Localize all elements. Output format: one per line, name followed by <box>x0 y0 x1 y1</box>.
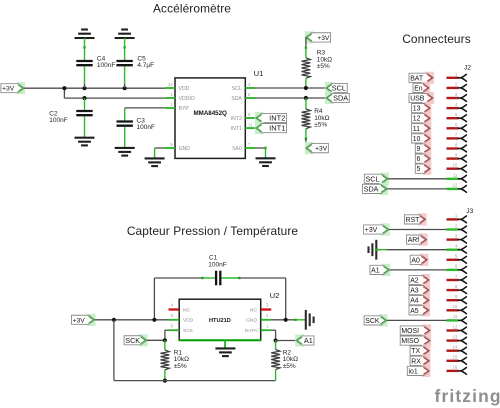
svg-text:12: 12 <box>453 324 458 329</box>
wire +3V rail to U1 VDD <box>24 87 165 89</box>
ground right of U2 (rotated) <box>306 310 314 330</box>
net flag 6 (J2 pin 9) <box>423 153 432 165</box>
lead R4 top <box>305 98 307 109</box>
svg-text:Connecteurs: Connecteurs <box>402 32 471 46</box>
pin J2-12 SDA <box>447 188 459 190</box>
svg-text:+3V: +3V <box>315 146 328 153</box>
junction C4 on VDD rail <box>82 86 86 90</box>
net flag A5 (J3 pin 10) <box>421 304 430 316</box>
svg-text:U2: U2 <box>270 291 279 300</box>
ground U1 SA0 <box>256 158 276 166</box>
wire SDA to J2-12 <box>387 188 446 190</box>
pin J3-4 GND <box>447 248 459 250</box>
svg-text:5: 5 <box>455 254 458 259</box>
svg-text:10: 10 <box>453 304 458 309</box>
svg-text:MISO: MISO <box>401 338 419 345</box>
svg-text:A3: A3 <box>410 288 419 295</box>
svg-text:SDA: SDA <box>364 184 379 193</box>
svg-text:100nF: 100nF <box>208 261 226 268</box>
lead C5 to VDD rail <box>124 66 126 84</box>
svg-text:SDA: SDA <box>231 96 242 102</box>
svg-text:6: 6 <box>455 264 458 269</box>
lead R2 bottom <box>275 370 277 381</box>
net flag USB (J2 pin 3) <box>425 92 434 104</box>
ground U1 GND <box>145 158 165 166</box>
pin J3-10 A5 <box>447 309 459 311</box>
wire +3V to J3-2 <box>389 229 447 231</box>
pin J3-11 SCK <box>447 319 459 321</box>
junction C5 on VDD rail <box>123 86 127 90</box>
wire SCL <box>256 87 326 89</box>
pin J2-5 12 <box>447 117 459 119</box>
svg-text:±5%: ±5% <box>314 122 327 129</box>
svg-text:6: 6 <box>171 323 174 328</box>
pin J3-15 RX <box>447 360 459 362</box>
svg-text:13: 13 <box>413 106 421 113</box>
wire C3 to U1 BYP <box>124 108 126 121</box>
resistor R3 <box>302 58 311 79</box>
pin U1 INT1 stub <box>245 127 255 129</box>
wire SCK flag to junction <box>147 339 165 341</box>
op-amp U1 MMA8452Q body <box>175 78 245 158</box>
svg-text:BYP: BYP <box>179 106 190 112</box>
pin J3-2 +3V <box>447 228 459 230</box>
svg-text:7: 7 <box>455 132 458 137</box>
lead C1 left <box>202 277 215 279</box>
svg-text:GND: GND <box>246 318 257 324</box>
net flag RX (J3 pin 15) <box>422 355 431 367</box>
svg-text:ARf: ARf <box>408 237 420 244</box>
svg-text:RX: RX <box>411 358 421 365</box>
svg-text:15: 15 <box>453 355 458 360</box>
net flag 11 (J2 pin 6) <box>423 122 432 134</box>
svg-text:INT1: INT1 <box>269 124 285 133</box>
svg-text:5: 5 <box>170 142 173 147</box>
lead ground to C4 <box>84 38 86 61</box>
pin U2 NC right red stub <box>261 308 272 310</box>
svg-text:J2: J2 <box>464 64 471 71</box>
svg-text:J3: J3 <box>466 208 473 215</box>
svg-text:14: 14 <box>453 345 458 350</box>
resistor R4 <box>302 109 311 129</box>
svg-text:2: 2 <box>266 313 269 318</box>
svg-text:1: 1 <box>170 92 173 97</box>
junction C2 on VDDIO rail <box>82 96 86 100</box>
svg-text:A1: A1 <box>304 336 313 345</box>
net flag SCK <box>139 334 148 346</box>
net flag INT2 <box>255 112 264 124</box>
junction R3 SCL <box>304 86 308 90</box>
svg-text:4.7µF: 4.7µF <box>137 62 154 69</box>
svg-text:U1: U1 <box>254 69 263 78</box>
wire SCK to J3-11 <box>387 319 447 321</box>
wire U1 GND to ground <box>155 147 165 149</box>
svg-text:Capteur Pression / Température: Capteur Pression / Température <box>127 224 299 238</box>
svg-text:INT2: INT2 <box>231 116 242 122</box>
capacitor C3 <box>117 122 133 126</box>
lead R1 top <box>164 340 166 350</box>
wire ground to J3-4 <box>376 249 387 251</box>
svg-text:2: 2 <box>170 102 173 107</box>
svg-text:MMA8452Q: MMA8452Q <box>194 110 228 117</box>
wire +3V rail to U2 VDD <box>95 319 169 321</box>
net flag A0 (J3 pin 5) <box>420 254 429 266</box>
svg-text:+3V: +3V <box>317 35 330 42</box>
net flag SCL <box>325 82 334 94</box>
svg-text:8: 8 <box>455 284 458 289</box>
svg-text:C1: C1 <box>209 254 218 261</box>
pin U2 NC left red stub <box>169 308 180 310</box>
svg-text:4: 4 <box>171 303 174 308</box>
svg-text:12: 12 <box>453 183 458 188</box>
svg-text:±5%: ±5% <box>283 363 296 370</box>
pin U1 VDDIO stub <box>165 97 175 99</box>
wire A1 to J3-6 <box>390 269 447 271</box>
svg-text:11: 11 <box>453 314 458 319</box>
ground symbol (J3 pin 4) <box>369 240 377 260</box>
net flag SDA <box>325 92 334 104</box>
lead R3 top <box>305 48 307 58</box>
svg-text:TX: TX <box>411 348 420 355</box>
svg-text:10: 10 <box>453 163 458 168</box>
svg-text:GND: GND <box>179 146 191 152</box>
net flag MISO (J3 pin 13) <box>422 335 431 347</box>
junction SCK / R1 <box>163 338 167 342</box>
lead VDDIO rail to C2 <box>84 98 86 110</box>
svg-text:Accéléromètre: Accéléromètre <box>153 1 231 15</box>
junction C1 right on GND net <box>284 318 288 322</box>
lead C3 to ground <box>124 127 126 148</box>
ground below U2 <box>215 348 235 356</box>
ground below C3 <box>115 148 135 156</box>
net flag A1 (J3 pin 6) <box>382 264 391 276</box>
wire U2 GND right <box>271 319 296 321</box>
svg-text:+3V: +3V <box>365 227 378 234</box>
svg-text:6: 6 <box>248 92 251 97</box>
pin J2-8 9 <box>447 147 459 149</box>
pin J2-9 6 <box>447 157 459 159</box>
svg-text:2: 2 <box>455 82 458 87</box>
pin J2-3 USB <box>447 97 459 99</box>
net flag 9 (J2 pin 8) <box>423 142 432 154</box>
capacitor C2 <box>76 111 92 115</box>
svg-text:VDD: VDD <box>183 318 194 324</box>
lead ground to C5 <box>124 38 126 61</box>
svg-text:7: 7 <box>455 274 458 279</box>
svg-text:SCL: SCL <box>232 86 242 92</box>
svg-text:6: 6 <box>455 122 458 127</box>
lead C2 to ground <box>84 116 86 137</box>
pin U2 VDD stub <box>169 319 179 321</box>
svg-text:A1: A1 <box>371 267 380 274</box>
net flag A2 (J3 pin 7) <box>421 274 430 286</box>
svg-text:8: 8 <box>455 142 458 147</box>
net flag SDA (J2 pin 12) <box>379 183 388 195</box>
svg-text:10: 10 <box>413 136 421 143</box>
junction +3V rail / bottom rail <box>112 318 116 322</box>
net flag ARf (J3 pin 3) <box>419 234 428 246</box>
svg-text:11: 11 <box>413 126 420 133</box>
svg-text:9: 9 <box>455 152 458 157</box>
lead R1 bottom <box>164 370 166 381</box>
net flag SCK (J3 pin 11) <box>379 314 388 326</box>
net flag A3 (J3 pin 8) <box>421 284 430 296</box>
wire junction up to U2 SCK <box>164 330 166 340</box>
svg-text:io1: io1 <box>409 368 418 375</box>
svg-text:1: 1 <box>266 323 269 328</box>
svg-text:2: 2 <box>455 223 458 228</box>
pin J3-1 RST <box>447 218 459 220</box>
svg-text:SCK: SCK <box>125 336 140 345</box>
svg-text:7: 7 <box>248 142 251 147</box>
ground above C4 <box>75 30 95 39</box>
net flag En (J2 pin 2) <box>421 82 430 94</box>
pin U2 GND stub <box>261 319 271 321</box>
svg-text:5: 5 <box>171 313 174 318</box>
capacitor C1 <box>216 271 220 286</box>
svg-text:A5: A5 <box>410 308 419 315</box>
svg-text:VDD: VDD <box>179 86 190 92</box>
svg-text:A4: A4 <box>410 298 419 305</box>
net flag 12 (J2 pin 5) <box>423 112 432 124</box>
pin J3-8 A3 <box>447 289 459 291</box>
svg-text:A0: A0 <box>411 257 420 264</box>
svg-text:5: 5 <box>417 166 421 173</box>
junction R1 bottom rail <box>163 379 167 383</box>
pin J3-16 io1 <box>447 370 459 372</box>
pin U1 GND stub <box>164 147 175 149</box>
pin U2 DATA stub <box>261 329 271 331</box>
svg-text:NC: NC <box>183 307 191 313</box>
svg-text:SCK: SCK <box>183 328 194 334</box>
pin U1 SCL stub <box>245 87 255 89</box>
pin U1 BYP stub <box>165 107 175 109</box>
junction R4 SDA <box>304 96 308 100</box>
net flag A4 (J3 pin 9) <box>421 294 430 306</box>
svg-text:R3: R3 <box>317 49 326 56</box>
svg-text:9: 9 <box>455 294 458 299</box>
pin J3-13 MISO <box>447 339 459 341</box>
pin J3-6 A1 <box>447 269 459 271</box>
capacitor C5 <box>116 61 132 65</box>
pin J2-2 En <box>447 87 459 89</box>
wire SCL to J2-11 <box>388 178 446 180</box>
svg-text:BAT: BAT <box>410 75 424 82</box>
pin J2-1 BAT <box>447 77 459 79</box>
pin J2-4 13 <box>447 107 459 109</box>
net flag RST (J3 pin 1) <box>418 213 427 225</box>
net flag INT1 <box>255 122 264 134</box>
svg-text:HTU21D: HTU21D <box>209 318 231 324</box>
svg-text:±5%: ±5% <box>317 63 330 70</box>
supply flag +3V (sensor) <box>87 314 96 326</box>
svg-text:SDA: SDA <box>333 93 348 102</box>
svg-text:INT2: INT2 <box>269 113 285 122</box>
net flag A1 <box>295 334 304 346</box>
svg-text:9: 9 <box>248 112 251 117</box>
svg-text:1: 1 <box>455 72 458 77</box>
net flag 10 (J2 pin 7) <box>423 132 432 144</box>
net flag 13 (J2 pin 4) <box>423 102 432 114</box>
pin U1 VDD stub <box>165 87 175 89</box>
svg-text:INT1: INT1 <box>231 126 242 132</box>
svg-text:±5%: ±5% <box>174 363 187 370</box>
pin U1 SDA stub <box>245 97 255 99</box>
svg-text:11: 11 <box>248 122 253 127</box>
wire +3V to R3 <box>305 37 307 47</box>
pin J3-5 A0 <box>447 259 459 261</box>
svg-text:13: 13 <box>453 334 458 339</box>
wire C1 left down to +3V rail <box>153 278 155 320</box>
pin J2-7 10 <box>447 137 459 139</box>
net flag TX (J3 pin 14) <box>422 345 431 357</box>
pin J2-10 5 <box>447 167 459 169</box>
wire U2 DATA to junction <box>271 329 276 331</box>
svg-text:SA0: SA0 <box>232 146 242 152</box>
pin J3-9 A4 <box>447 299 459 301</box>
svg-text:14: 14 <box>168 82 173 87</box>
svg-text:RST: RST <box>406 217 421 224</box>
op-amp U2 HTU21D body <box>179 299 261 340</box>
svg-text:6: 6 <box>417 156 421 163</box>
svg-text:4: 4 <box>248 82 251 87</box>
wire bottom +3V rail <box>113 320 115 381</box>
net flag +3V (J3 pin 2) <box>381 223 390 235</box>
junction DATA / R2 / A1 <box>274 338 278 342</box>
net flag SCL (J2 pin 11) <box>380 173 389 185</box>
svg-text:En: En <box>414 85 423 92</box>
svg-text:16: 16 <box>453 365 458 370</box>
lead R4 bottom <box>305 129 307 139</box>
junction +3V/VDDIO split <box>62 86 66 90</box>
wire VDDIO rail <box>63 88 65 98</box>
svg-text:SCK: SCK <box>365 318 380 325</box>
lead R2 top <box>275 341 277 350</box>
svg-text:SCL: SCL <box>366 174 380 183</box>
lead C1 right <box>221 277 239 279</box>
wire junction to A1 flag <box>276 340 296 342</box>
pin J3-3 ARf <box>447 238 459 240</box>
pin U1 SA0 stub <box>245 147 255 149</box>
svg-text:MOSI: MOSI <box>401 328 419 335</box>
supply flag +3V (left, U1 VDD rail) <box>16 82 25 94</box>
svg-text:A2: A2 <box>410 277 419 284</box>
svg-text:SCL: SCL <box>332 83 346 92</box>
pin U2 SCK stub <box>169 329 179 331</box>
svg-text:1: 1 <box>455 213 458 218</box>
svg-text:R4: R4 <box>314 108 323 115</box>
wire U1 SA0 to ground <box>256 147 266 149</box>
pin J2-6 11 <box>447 127 459 129</box>
net flag MOSI (J3 pin 12) <box>422 324 431 336</box>
resistor R2 <box>271 350 280 370</box>
resistor R1 <box>161 350 170 370</box>
svg-text:USB: USB <box>410 95 425 102</box>
wire R4 to +3V <box>305 138 307 148</box>
svg-text:100nF: 100nF <box>49 117 67 124</box>
pin U1 INT2 stub <box>245 117 255 119</box>
lead C4 to VDD rail <box>84 66 86 84</box>
ground above C5 <box>115 30 135 39</box>
lead to right ground <box>296 319 306 321</box>
svg-text:100nF: 100nF <box>137 124 155 131</box>
pin J2-11 SCL <box>447 178 459 180</box>
supply flag +3V above R3 <box>305 31 314 43</box>
svg-text:100nF: 100nF <box>97 62 115 69</box>
junction C1 left on +3V rail <box>152 318 156 322</box>
svg-text:3: 3 <box>266 303 269 308</box>
pin J3-12 MOSI <box>447 329 459 331</box>
svg-text:+3V: +3V <box>73 317 86 324</box>
svg-text:5: 5 <box>455 112 458 117</box>
svg-text:+3V: +3V <box>2 86 15 93</box>
lead R3 bottom <box>305 78 307 88</box>
svg-text:12: 12 <box>413 116 421 123</box>
wire SDA <box>256 97 326 99</box>
svg-text:DATA: DATA <box>245 328 258 334</box>
net flag io1 (J3 pin 16) <box>422 365 431 377</box>
svg-text:4: 4 <box>455 102 458 107</box>
supply flag +3V below R4 <box>305 142 314 154</box>
pin J3-14 TX <box>447 350 459 352</box>
svg-text:3: 3 <box>455 92 458 97</box>
net flag 5 (J2 pin 10) <box>423 163 432 175</box>
wire C1 right down to GND net <box>285 278 287 320</box>
ground below C2 <box>75 138 95 146</box>
svg-text:3: 3 <box>455 233 458 238</box>
svg-text:NC: NC <box>250 307 258 313</box>
svg-text:fritzing: fritzing <box>435 386 500 406</box>
pin J3-7 A2 <box>447 279 459 281</box>
svg-text:VDDIO: VDDIO <box>179 96 195 102</box>
svg-text:4: 4 <box>455 244 458 249</box>
pin U2 pad stub to ground <box>224 340 226 348</box>
capacitor C4 <box>76 61 92 65</box>
svg-text:11: 11 <box>453 173 458 178</box>
net flag BAT (J2 pin 1) <box>425 72 434 84</box>
svg-text:9: 9 <box>417 146 421 153</box>
